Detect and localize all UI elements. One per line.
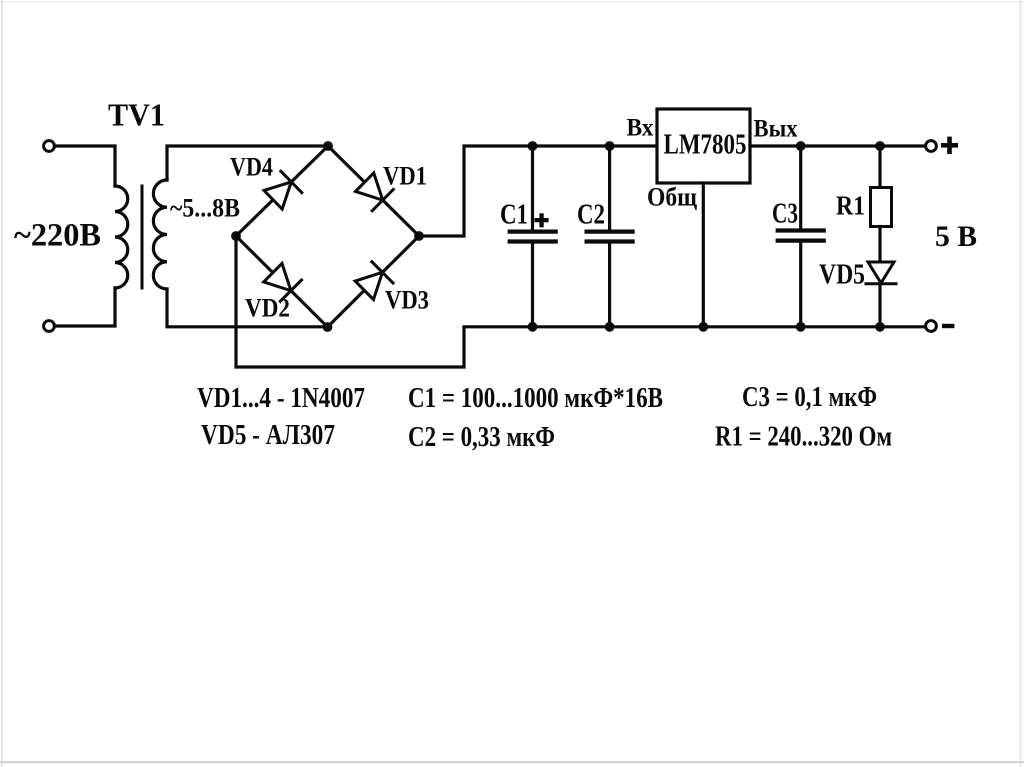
svg-text:R1: R1 [836, 191, 865, 221]
wire VD5 to bottom rail [878, 284, 881, 327]
wire regulator output rail [750, 144, 926, 147]
node R1 top [875, 141, 885, 151]
node bridge bottom [323, 322, 333, 332]
diode VD5 [868, 262, 894, 283]
capacitor C1 [510, 230, 556, 234]
node bridge right [414, 231, 424, 241]
node C2 bottom [605, 322, 615, 332]
svg-text:C2: C2 [577, 200, 605, 231]
svg-text:Общ: Общ [647, 183, 697, 212]
diode VD3 [354, 262, 393, 301]
wire primary bottom [55, 288, 116, 326]
svg-text:~5...8В: ~5...8В [170, 194, 240, 223]
wire secondary top to bridge [167, 146, 328, 180]
svg-text:VD4: VD4 [230, 153, 273, 182]
wire C1 branch bottom [531, 244, 534, 327]
terminal input top [44, 141, 55, 152]
resistor R1 [871, 188, 892, 227]
plus sign output [941, 143, 958, 148]
svg-text:VD1...4 - 1N4007: VD1...4 - 1N4007 [197, 383, 365, 414]
node C1 top [528, 141, 538, 151]
faint scan edge right [1020, 0, 1022, 767]
wire regulator ground [702, 183, 705, 327]
svg-text:VD5 - АЛ307: VD5 - АЛ307 [201, 420, 335, 451]
transformer core [141, 186, 144, 288]
wire bridge side VD4 [236, 146, 328, 236]
svg-text:Вх: Вх [627, 115, 654, 142]
svg-text:VD5: VD5 [819, 260, 865, 291]
wire C2 branch top [608, 146, 611, 230]
wire bridge side VD2 [236, 236, 328, 327]
capacitor C3 [778, 228, 824, 232]
diode VD4 [263, 171, 302, 210]
node bridge left [231, 231, 241, 241]
terminal output plus [926, 141, 937, 152]
node ground bottom [698, 322, 708, 332]
svg-text:VD3: VD3 [385, 286, 429, 315]
faint scan edge bottom [0, 761, 1024, 763]
wire secondary bottom to bridge [167, 289, 328, 327]
terminal output minus [926, 321, 937, 332]
wire bridge - output bypass [236, 236, 464, 367]
secondary winding TV1 [153, 180, 167, 289]
node VD5 bottom [875, 322, 885, 332]
svg-text:~220В: ~220В [14, 218, 101, 254]
svg-text:C1 = 100...1000 мкФ*16В: C1 = 100...1000 мкФ*16В [408, 383, 663, 414]
svg-text:TV1: TV1 [108, 97, 165, 133]
wire C3 branch bottom [799, 243, 802, 327]
capacitor C2 [587, 230, 633, 234]
svg-text:Вых: Вых [754, 116, 798, 143]
faint scan edge left [1, 0, 3, 767]
wire bridge + output to top rail [419, 146, 656, 236]
regulator U1 LM7805 box [657, 109, 750, 183]
wire bottom rail [464, 325, 926, 328]
node C2 top [605, 141, 615, 151]
wire R1 to VD5 [878, 227, 881, 263]
svg-text:VD1: VD1 [383, 162, 427, 191]
minus sign output [942, 324, 954, 328]
node bridge top [323, 141, 333, 151]
node C3 bottom [796, 322, 806, 332]
faint scan edge top [0, 1, 1024, 3]
svg-text:R1 = 240...320 Ом: R1 = 240...320 Ом [715, 422, 892, 453]
svg-text:C3: C3 [772, 199, 798, 230]
svg-text:C3 = 0,1 мкФ: C3 = 0,1 мкФ [742, 382, 877, 413]
svg-text:LM7805: LM7805 [664, 130, 747, 161]
terminal input bottom [44, 321, 55, 332]
wire C3 branch top [799, 146, 802, 229]
wire C2 branch bottom [608, 244, 611, 327]
svg-text:C2 = 0,33 мкФ: C2 = 0,33 мкФ [408, 422, 555, 453]
wire R1 branch top [878, 146, 881, 188]
node C3 top [796, 141, 806, 151]
label C1 polarity plus [535, 213, 549, 227]
diode VD2 [262, 262, 301, 301]
primary winding TV1 [115, 186, 128, 288]
wire primary top [55, 146, 116, 186]
svg-text:VD2: VD2 [245, 294, 290, 323]
wire bridge side VD1 [328, 146, 419, 236]
svg-text:5 В: 5 В [935, 220, 977, 253]
diode VD1 [354, 172, 393, 211]
wire bridge side VD3 [328, 236, 420, 327]
svg-text:C1: C1 [500, 200, 528, 231]
node C1 bottom [528, 322, 538, 332]
wire C1 branch top [531, 146, 534, 230]
